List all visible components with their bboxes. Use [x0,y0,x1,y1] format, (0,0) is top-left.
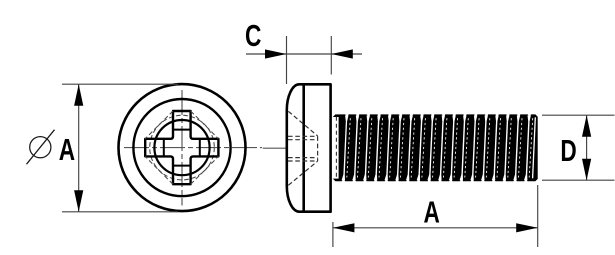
cross wing chord right [199,139,201,157]
cross wing chord top [173,129,191,131]
head dome tangent line [302,84,305,211]
recess hidden slot lines [288,135,318,137]
dim phiA arrow down [74,190,83,212]
dim A right extension line [537,185,539,247]
screw head profile [287,84,331,211]
head outer circle [119,84,246,211]
thread runout hidden line [335,117,337,179]
dim C left extension line [286,36,288,84]
recess hidden dashed circle [150,115,215,180]
dim C right extension line [330,36,332,75]
dim C arrow right [265,49,287,58]
dim C arrow left [331,49,353,58]
svg-text:D: D [560,132,576,167]
dim D top extension line [542,114,615,116]
diameter symbol [30,137,51,158]
side view centerline [263,147,536,149]
recess hidden cone bottom [288,161,317,185]
dim D dimension line [586,115,588,180]
recess wing hidden diagonal lower-right [191,156,219,184]
recess wing hidden diagonal upper-right [191,111,219,139]
threaded shank [334,115,538,181]
recess wing hidden diagonal lower-left [145,156,173,184]
recess hidden bottom line [317,136,319,161]
dim A arrow right [516,223,538,232]
svg-text:A: A [424,194,440,229]
dim phiA dimension line [78,84,80,212]
dim A arrow left [333,223,355,232]
dim phiA arrow up [74,84,83,106]
cross recess outline [145,111,218,184]
dim phiA bottom extension line [62,211,178,213]
dim A left extension line [332,222,334,247]
front view centerline horizontal [124,147,262,149]
thread runout gap [333,117,339,179]
recess mouth circle [154,120,209,175]
dim C dimension line [246,53,362,55]
thread flank gaps [342,115,536,180]
dim A dimension line [333,227,538,229]
cross wing chord bottom [173,165,191,167]
svg-text:A: A [59,131,75,166]
dim D arrow up [582,115,591,137]
dim D arrow down [582,159,591,181]
recess hidden cone top [288,111,317,136]
recess wing hidden diagonal upper-left [145,111,173,139]
front view centerline vertical [181,90,183,206]
svg-text:C: C [245,17,261,52]
head inner chamfer circle [133,99,230,196]
cross wing chord left [163,139,165,157]
dim D bottom extension line [542,179,615,181]
dim phiA top extension line [62,83,178,85]
